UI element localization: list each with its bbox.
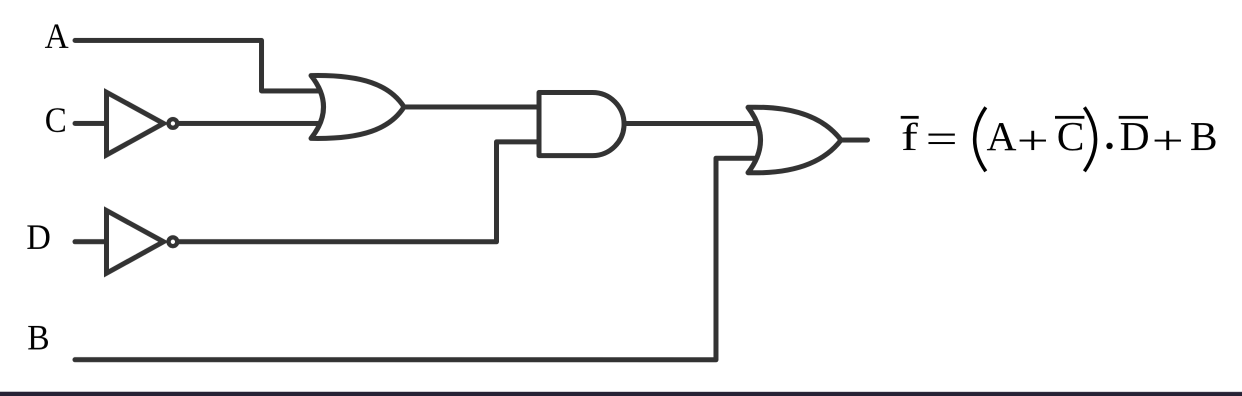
svg-text:B: B <box>27 318 49 358</box>
svg-text:=: = <box>926 116 958 162</box>
svg-text:D: D <box>1120 113 1150 159</box>
svg-text:C: C <box>45 100 67 140</box>
svg-text:+: + <box>1017 117 1049 163</box>
svg-text:A: A <box>45 16 69 56</box>
svg-text:A: A <box>987 113 1017 159</box>
svg-text:+: + <box>1152 117 1184 163</box>
svg-text:B: B <box>1190 113 1218 159</box>
svg-text:C: C <box>1057 113 1085 159</box>
svg-text:f: f <box>901 116 918 159</box>
svg-text:D: D <box>26 217 51 257</box>
